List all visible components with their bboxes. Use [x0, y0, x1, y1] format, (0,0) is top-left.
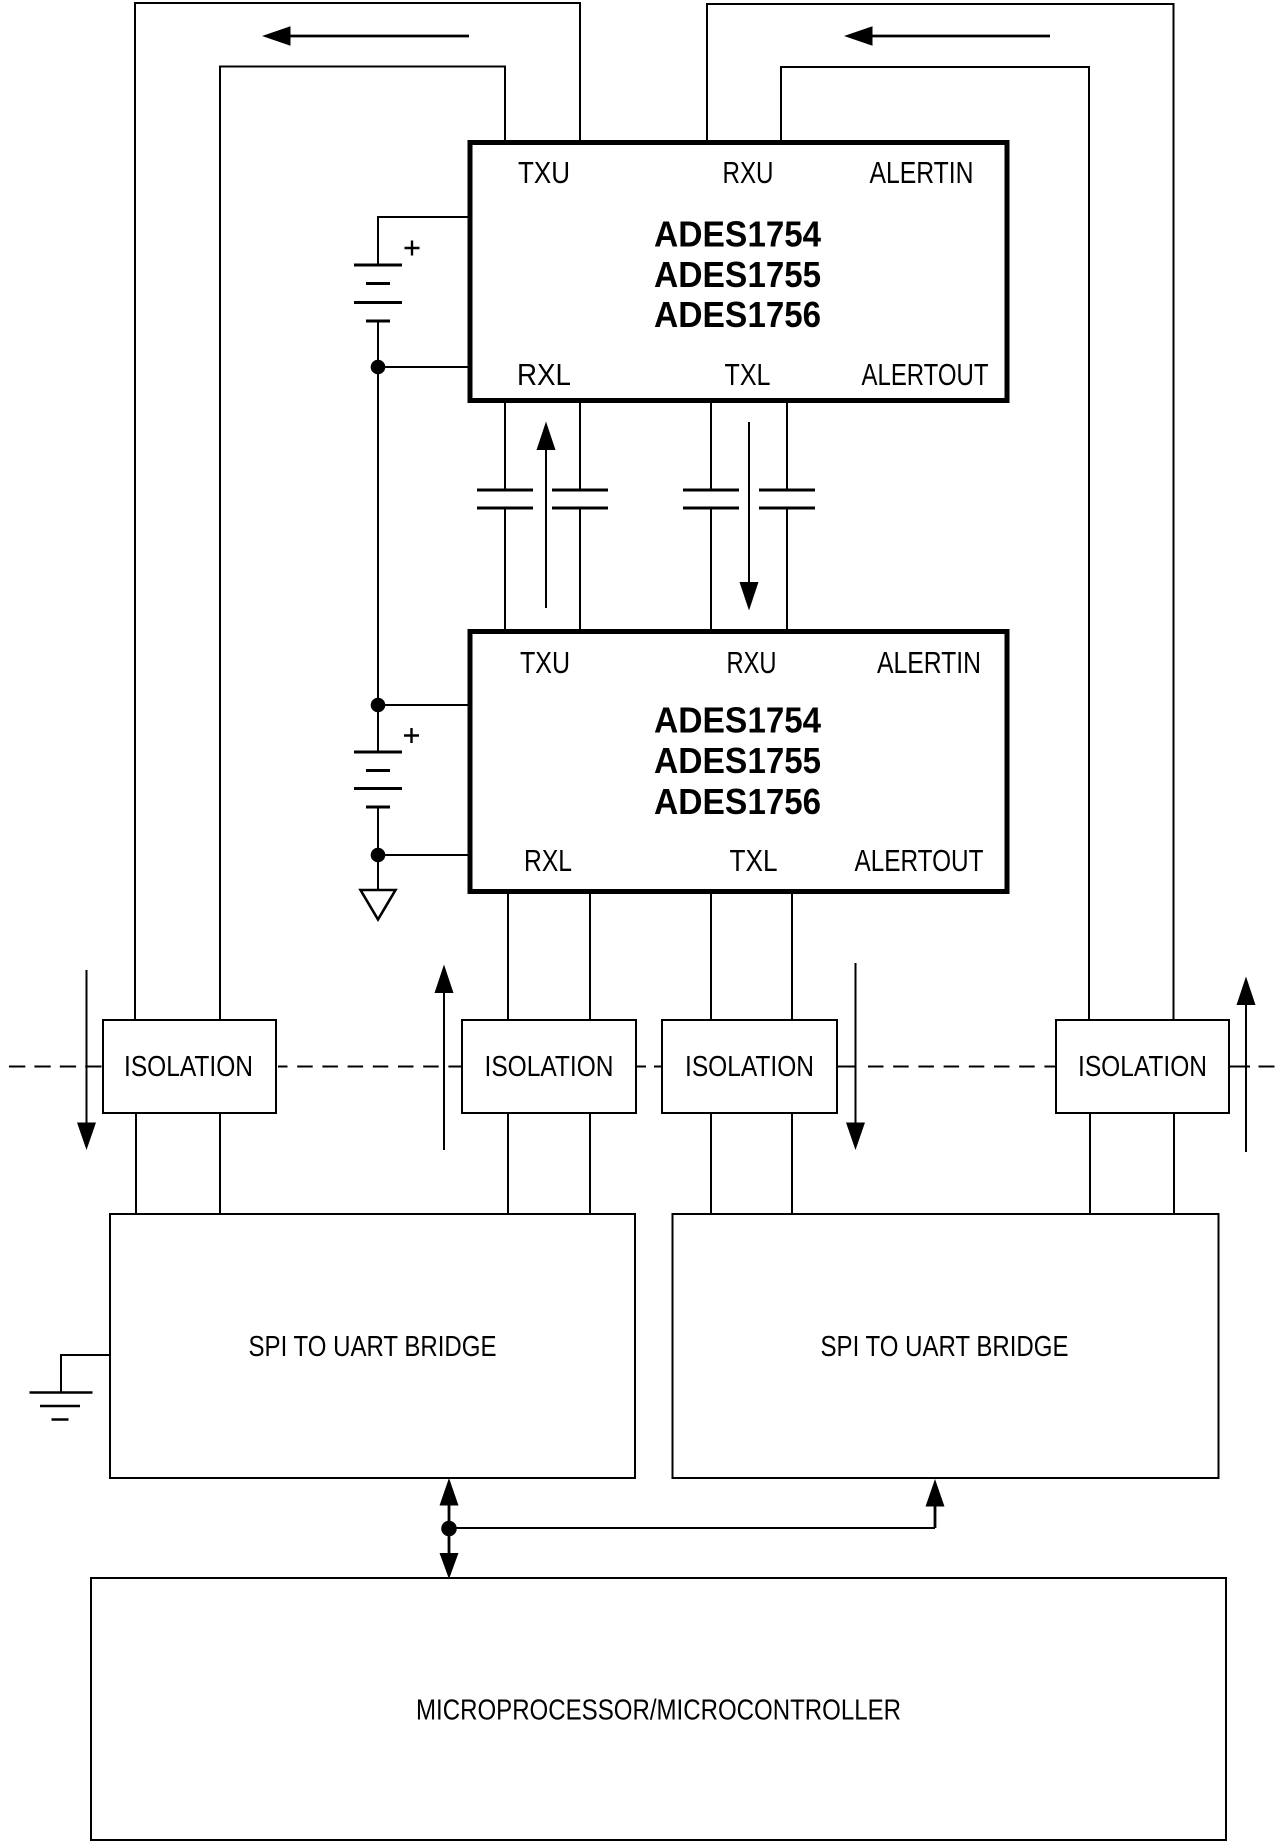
svg-text:1756: 1756	[748, 781, 822, 822]
svg-text:1754: 1754	[748, 214, 822, 255]
svg-text:1754: 1754	[748, 700, 822, 741]
svg-text:ISOLATION: ISOLATION	[685, 1051, 814, 1083]
svg-text:ALERTIN: ALERTIN	[870, 156, 974, 190]
svg-text:ALERTOUT: ALERTOUT	[862, 358, 989, 392]
svg-text:TXL: TXL	[730, 844, 778, 878]
svg-text:TXU: TXU	[520, 646, 570, 680]
svg-text:ADES: ADES	[654, 254, 747, 295]
svg-text:ISOLATION: ISOLATION	[124, 1051, 253, 1083]
svg-text:ADES: ADES	[654, 700, 747, 741]
svg-text:TXL: TXL	[725, 358, 771, 392]
svg-text:ALERTIN: ALERTIN	[877, 646, 981, 680]
svg-text:1756: 1756	[748, 294, 822, 335]
svg-text:1755: 1755	[748, 740, 822, 781]
svg-text:MICROPROCESSOR/MICROCONTROLLER: MICROPROCESSOR/MICROCONTROLLER	[416, 1695, 901, 1727]
svg-text:SPI TO UART BRIDGE: SPI TO UART BRIDGE	[249, 1331, 497, 1363]
svg-text:ISOLATION: ISOLATION	[1078, 1051, 1207, 1083]
svg-text:TXU: TXU	[518, 156, 570, 190]
svg-text:RXU: RXU	[723, 156, 774, 190]
svg-text:ADES: ADES	[654, 740, 747, 781]
svg-text:ALERTOUT: ALERTOUT	[855, 844, 984, 878]
svg-text:RXL: RXL	[517, 358, 571, 392]
svg-text:1755: 1755	[748, 254, 822, 295]
svg-text:ADES: ADES	[654, 214, 747, 255]
svg-text:RXL: RXL	[524, 844, 572, 878]
svg-text:ADES: ADES	[654, 294, 747, 335]
svg-text:ADES: ADES	[654, 781, 747, 822]
svg-text:SPI TO UART BRIDGE: SPI TO UART BRIDGE	[821, 1331, 1069, 1363]
svg-text:ISOLATION: ISOLATION	[485, 1051, 614, 1083]
svg-text:RXU: RXU	[727, 646, 777, 680]
